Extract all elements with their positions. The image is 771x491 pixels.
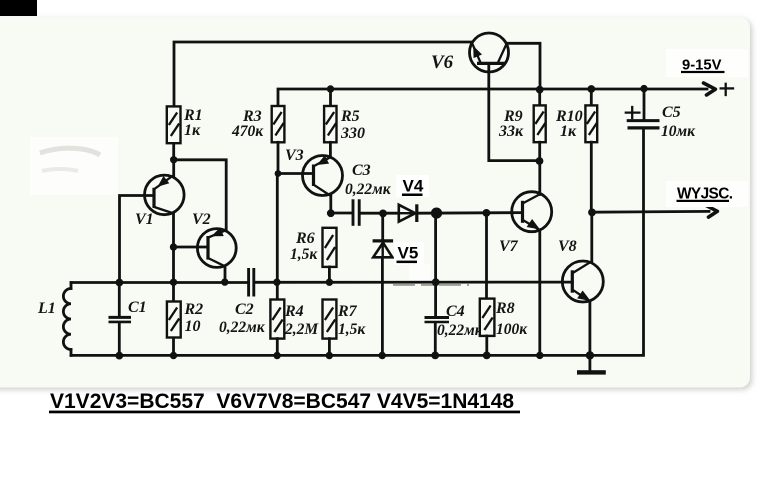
label C4	[409, 265, 484, 340]
wire C3 to V4 anode	[361, 212, 400, 215]
transistor V1	[145, 175, 185, 215]
resistor R5	[324, 106, 336, 142]
label R4	[284, 303, 319, 338]
capacitor C4	[425, 318, 450, 356]
svg-text:C5: C5	[662, 104, 681, 121]
resistor R7	[323, 300, 337, 339]
svg-text:C2: C2	[235, 301, 254, 318]
svg-text:C4: C4	[446, 303, 465, 320]
label R6	[290, 230, 318, 263]
svg-text:V3: V3	[285, 147, 304, 164]
inductor L1	[63, 283, 71, 356]
resistor R10	[585, 105, 597, 142]
svg-text:R6: R6	[295, 230, 315, 247]
svg-text:10мк: 10мк	[661, 123, 696, 140]
svg-text:V4: V4	[403, 176, 424, 195]
wire node down to R4	[276, 174, 279, 300]
wire V6 collector to supply rail corner	[507, 43, 541, 90]
wire V6 base down and over to R9 bottom node	[489, 64, 539, 161]
wire V4 cathode to V7 base	[419, 211, 523, 214]
label V6	[431, 52, 454, 73]
label R2	[184, 301, 204, 335]
wire mid rail C2 to V8 base	[255, 281, 572, 284]
svg-text:V1V2V3=BC557 V6V7V8=BC547 V4V: V1V2V3=BC557 V6V7V8=BC547 V4V5=1N4148	[50, 390, 514, 413]
transistor V6	[470, 33, 509, 72]
wire bottom ground rail	[71, 129, 644, 355]
transistor V8	[562, 261, 603, 302]
whiteout smudge left of V1	[30, 137, 118, 195]
svg-text:R2: R2	[184, 301, 204, 318]
wire signal node to C3	[331, 212, 352, 215]
label V7	[499, 238, 519, 255]
arrowhead supply rail	[704, 83, 716, 95]
wire R7 bottom lead	[328, 339, 331, 356]
svg-text:330: 330	[340, 125, 365, 142]
wire V8 emitter down	[589, 301, 592, 355]
wire R6 bottom lead	[328, 267, 331, 282]
label R1	[183, 107, 203, 139]
svg-text:R4: R4	[284, 303, 304, 320]
ground symbol	[577, 355, 606, 374]
svg-text:1,5к: 1,5к	[338, 321, 366, 338]
wire top rail from R1 to V6	[174, 42, 472, 106]
wire V8 collector up	[590, 212, 593, 262]
wire R8 bottom lead	[485, 336, 488, 356]
svg-text:0,22мк: 0,22мк	[219, 319, 266, 336]
label R10	[555, 108, 583, 140]
caption transistor types	[49, 390, 520, 413]
plus sign C5	[626, 107, 640, 118]
svg-text:C1: C1	[128, 299, 147, 316]
resistor R8	[480, 299, 495, 336]
svg-text:R7: R7	[337, 303, 358, 320]
wire V3 collector down to signal node	[329, 196, 332, 214]
resistor R1	[167, 106, 181, 143]
svg-text:L1: L1	[37, 300, 56, 317]
label R8	[495, 300, 528, 338]
label V1	[135, 211, 154, 228]
label 9-15V	[666, 49, 748, 77]
wire R9 top lead	[538, 89, 541, 105]
capacitor C1	[109, 283, 132, 356]
wire C4 node branch down	[434, 213, 437, 316]
label C2	[219, 301, 266, 336]
label V4	[396, 175, 429, 197]
wire V5 branch down	[381, 213, 384, 240]
wire R2 bottom lead	[172, 338, 175, 356]
resistor R6	[323, 228, 337, 267]
svg-text:R8: R8	[495, 300, 515, 317]
wire node to R2	[172, 247, 175, 302]
wire R10 top lead	[590, 89, 593, 105]
wire V1 base down to tank	[120, 196, 155, 283]
label R5	[340, 108, 365, 142]
svg-text:V7: V7	[499, 238, 519, 255]
resistor R4	[270, 300, 284, 339]
svg-text:33к: 33к	[498, 123, 524, 140]
wire R9 bottom lead	[538, 142, 541, 161]
svg-text:V2: V2	[192, 211, 211, 228]
wire V7 emitter down to ground rail	[538, 230, 541, 356]
scan roughness under mid rail	[393, 284, 469, 286]
svg-text:2,2М: 2,2М	[284, 321, 319, 338]
wire V1-V2 base link	[174, 246, 209, 249]
label V5	[394, 242, 424, 265]
resistor R2	[167, 302, 181, 338]
transistor V2	[197, 228, 236, 268]
label V8	[558, 238, 577, 255]
wire tank rail left (L1 top to C2)	[71, 281, 247, 284]
wire supply rail 9-15V	[278, 89, 707, 106]
wire V3 base lead	[278, 172, 314, 175]
wire R3 bottom to V3 base node	[277, 142, 280, 173]
label L1	[37, 300, 56, 317]
plus sign at supply rail end	[721, 84, 733, 95]
capacitor C3	[353, 199, 359, 226]
svg-text:1к: 1к	[184, 122, 201, 139]
wire R8 branch down	[485, 213, 488, 299]
svg-text:V1: V1	[135, 211, 154, 228]
label R9	[498, 108, 524, 140]
svg-text:V6: V6	[431, 52, 454, 73]
capacitor C2	[249, 268, 254, 297]
svg-text:V5: V5	[398, 244, 419, 263]
diode V4	[399, 204, 417, 222]
wire V5 cathode to ground rail	[381, 258, 384, 356]
svg-text:C3: C3	[352, 162, 371, 179]
svg-text:1к: 1к	[560, 123, 577, 140]
wire output line WYJSC	[592, 210, 709, 214]
wire R5 bottom to V3 emitter	[329, 142, 332, 157]
black corner block	[0, 0, 37, 16]
label C5	[661, 104, 696, 140]
svg-text:0,22мк: 0,22мк	[345, 181, 392, 198]
svg-text:R5: R5	[340, 108, 360, 125]
wire C5 top lead	[643, 89, 646, 120]
wire R5 top lead	[329, 89, 332, 106]
svg-text:10: 10	[185, 318, 201, 335]
diode V5	[373, 241, 394, 257]
label C3	[345, 162, 392, 198]
label V2	[192, 211, 211, 228]
wire R1 bottom to V1 collector	[172, 143, 175, 176]
svg-text:1,5к: 1,5к	[290, 246, 318, 263]
transistor V3	[303, 156, 343, 197]
transistor V7	[512, 192, 552, 232]
label R7	[337, 303, 366, 338]
arrowhead output	[706, 205, 718, 217]
capacitor C5	[627, 121, 660, 128]
svg-text:0,22мк: 0,22мк	[437, 322, 484, 339]
wire V1 emitter down	[172, 214, 175, 248]
scan page background	[0, 18, 750, 388]
resistor R3	[272, 106, 285, 142]
label C1	[128, 299, 147, 316]
label V3	[285, 147, 304, 164]
label R3	[231, 108, 264, 140]
resistor R9	[534, 105, 546, 142]
wire V2 emitter down	[224, 266, 227, 282]
label WYJSC.	[666, 181, 748, 207]
svg-text:V8: V8	[558, 238, 577, 255]
wire branch R1 node to V2 collector	[174, 160, 227, 231]
wire R4 bottom lead	[276, 339, 279, 356]
wire R10 bottom to output node	[590, 142, 593, 212]
svg-text:470к: 470к	[231, 123, 264, 140]
wire V7 collector up	[538, 161, 541, 195]
svg-text:100к: 100к	[496, 321, 528, 338]
